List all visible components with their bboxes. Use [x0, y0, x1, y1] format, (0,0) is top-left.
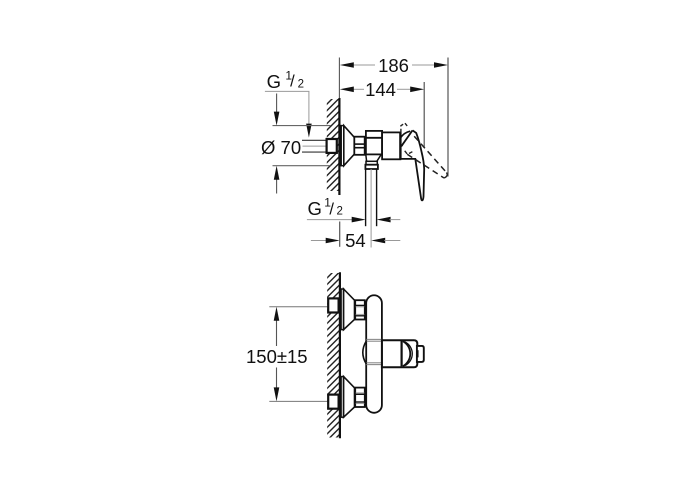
cartridge dome arc	[400, 131, 410, 138]
label G 1/2 (outlet)	[307, 196, 400, 223]
wall face line (top view)	[338, 98, 340, 195]
dimension 54	[311, 222, 400, 251]
svg-text:54: 54	[345, 230, 366, 251]
mixer body mid block (top view)	[382, 132, 400, 159]
outlet collar ring 2	[365, 165, 378, 169]
dimension 150±15	[246, 307, 329, 402]
svg-text:2: 2	[298, 79, 304, 91]
wall face line (bottom view)	[339, 272, 341, 438]
lever dashed rotated position: peak	[401, 123, 408, 132]
wall hatching (top view)	[320, 85, 346, 261]
handle shaft and knob (bottom view)	[382, 340, 417, 367]
mixer body left block (top view)	[366, 131, 382, 155]
svg-text:/: /	[329, 201, 334, 219]
capsule groove lines	[366, 339, 381, 364]
svg-text:/: /	[290, 72, 295, 90]
dimension 144	[340, 79, 424, 100]
lower hex nut	[355, 388, 365, 407]
lever dashed rotated position: tip arc	[444, 173, 447, 179]
extension line 186 (x=448)	[447, 58, 449, 177]
wall inlet square (top view)	[327, 139, 337, 153]
outlet pipe	[366, 169, 377, 248]
extension line 144 (x=424)	[423, 82, 425, 148]
inlet nipple lines (into wall)	[302, 140, 336, 152]
label G 1/2 (top)	[265, 69, 312, 138]
label diameter 70	[261, 94, 331, 194]
svg-text:150±15: 150±15	[246, 346, 308, 367]
outlet neck	[366, 155, 381, 163]
svg-text:Ø 70: Ø 70	[261, 137, 301, 158]
lower wall inlet square	[328, 395, 338, 409]
capsule edge through handle	[381, 340, 383, 367]
capsule left bulge	[363, 341, 367, 364]
knob dome back line	[401, 341, 403, 367]
lower escutcheon flange	[341, 377, 344, 418]
escutcheon flange (top view)	[341, 126, 344, 166]
upper wall inlet square	[328, 298, 338, 312]
lever dashed rotated position: upper edge	[414, 136, 446, 172]
outlet collar ring 1	[366, 161, 377, 164]
svg-text:186: 186	[378, 55, 409, 76]
hex nut (top view)	[354, 137, 364, 155]
lever dashed rotated position: lower edge	[407, 154, 444, 178]
svg-text:G: G	[267, 71, 281, 92]
knob dome arcs	[403, 341, 410, 366]
handle end tab	[417, 346, 424, 362]
tab inner line	[417, 350, 419, 357]
extension line wall face (left)	[338, 58, 340, 99]
escutcheon cone (top view)	[344, 126, 355, 166]
wall hatching (bottom view)	[320, 259, 346, 461]
mixer body capsule (bottom view)	[366, 295, 382, 413]
upper escutcheon cone	[344, 289, 355, 330]
upper hex nut	[355, 300, 365, 319]
dimension 186	[340, 55, 448, 76]
lower escutcheon cone	[344, 377, 355, 418]
svg-text:2: 2	[337, 206, 343, 218]
svg-text:144: 144	[365, 79, 396, 100]
lever handle solid	[400, 130, 424, 200]
upper escutcheon flange	[341, 289, 344, 330]
lever dashed rotated position: tip check	[405, 151, 414, 155]
svg-text:G: G	[308, 198, 322, 219]
